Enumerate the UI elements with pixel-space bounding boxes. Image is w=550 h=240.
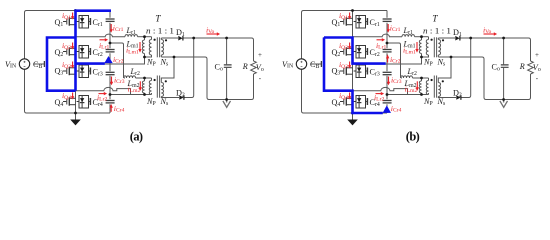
svg-text:(a): (a) [130, 129, 143, 143]
svg-text:(b): (b) [406, 129, 420, 143]
